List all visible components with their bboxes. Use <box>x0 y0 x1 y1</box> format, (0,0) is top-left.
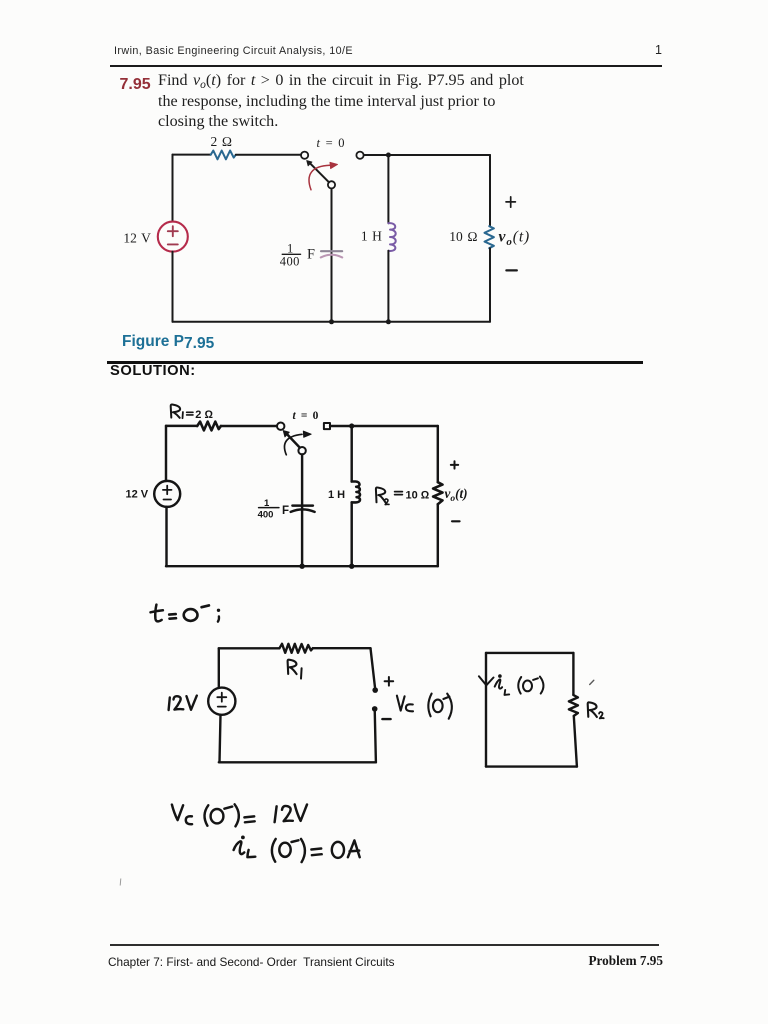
svg-text:1 H: 1 H <box>328 489 345 501</box>
zero <box>433 700 443 713</box>
wire top right <box>364 154 490 156</box>
source circle <box>154 481 180 507</box>
equals <box>311 849 321 856</box>
left wire lower <box>220 715 221 763</box>
superscript minus <box>443 697 449 699</box>
stray pen mark left margin <box>119 879 122 886</box>
subscript 1 <box>182 412 184 418</box>
equals <box>169 614 176 619</box>
left wire upper <box>165 426 167 481</box>
top wire <box>486 652 573 654</box>
node dot inductor bottom <box>349 564 354 569</box>
svg-text:2 Ω: 2 Ω <box>211 134 233 149</box>
zero <box>523 681 532 692</box>
node dot bottom inductor <box>386 319 391 324</box>
wire to switch contact <box>221 425 277 427</box>
footer right <box>589 953 663 969</box>
R2 label script R <box>588 702 597 717</box>
node dot lower <box>372 706 378 712</box>
resistor 2ohm zigzag <box>211 151 236 160</box>
handwritten t = 0- ; heading <box>151 605 221 622</box>
switch pivot circle <box>298 447 305 454</box>
superscript minus <box>292 840 299 842</box>
Vc label: c <box>406 704 413 711</box>
resistor R1 zigzag <box>197 422 221 431</box>
t=0- left circuit <box>169 644 452 763</box>
label R2 script R <box>376 487 386 502</box>
inductor branch wire lower <box>387 251 389 322</box>
V <box>295 804 307 821</box>
resistor R2 zigzag <box>433 482 442 504</box>
source plus <box>168 226 178 236</box>
swing arrow arc <box>284 434 302 455</box>
minus sign output <box>506 269 516 271</box>
solution rule <box>107 361 643 363</box>
paren close <box>540 677 544 694</box>
node dot top of inductor <box>386 153 391 158</box>
bottom wire <box>486 765 577 767</box>
red closing arrow arc <box>309 165 330 190</box>
node dot bottom capacitor <box>329 319 334 324</box>
resistor R1 zigzag <box>279 644 312 653</box>
source circle <box>208 688 235 715</box>
capacitor plate top <box>292 504 313 506</box>
wire to corner <box>313 647 371 649</box>
node dot capacitor bottom <box>299 564 304 569</box>
zero <box>184 609 198 621</box>
handwritten Vc(0-) = 12V <box>172 804 307 826</box>
paren open <box>428 694 431 717</box>
left wire <box>485 653 487 767</box>
L subscript <box>247 850 255 857</box>
V <box>172 805 183 821</box>
i body <box>234 841 245 854</box>
paren close <box>447 694 452 719</box>
iL label dot <box>498 674 502 678</box>
source plus <box>163 486 172 495</box>
svg-text:vo(t): vo(t) <box>445 486 468 504</box>
right wire upper <box>572 653 574 695</box>
superscript minus <box>202 605 209 607</box>
source minus <box>218 706 226 708</box>
zero <box>279 843 290 857</box>
minus Vc <box>382 718 390 720</box>
bottom wire <box>173 321 491 323</box>
equals <box>244 816 254 822</box>
label R1 script R <box>288 660 297 674</box>
right wire upper <box>371 648 376 687</box>
source minus <box>164 499 172 501</box>
footer rule <box>110 944 659 946</box>
i dot <box>241 836 245 840</box>
handwritten 2 <box>174 696 184 709</box>
svg-text:400: 400 <box>280 255 300 269</box>
subscript 2 <box>599 712 604 718</box>
paren open <box>205 805 209 825</box>
svg-text:F: F <box>282 505 289 517</box>
stray tick <box>590 680 594 684</box>
source minus <box>168 243 178 245</box>
handwritten iL(0-) = 0A <box>234 836 360 863</box>
wire top left <box>173 154 211 156</box>
svg-text:vo(t): vo(t) <box>499 229 531 249</box>
inductor coil <box>352 482 360 503</box>
printed circuit Fig P7.95 <box>123 134 530 324</box>
top wire <box>219 647 280 649</box>
switch contact right <box>356 152 363 159</box>
right wire lower <box>437 504 439 566</box>
top wire left <box>166 425 197 427</box>
switch blade <box>310 164 329 183</box>
inductor branch wire upper <box>387 155 389 223</box>
svg-text:10 Ω: 10 Ω <box>449 229 477 244</box>
right wire upper <box>489 155 491 226</box>
left wire upper <box>218 648 220 687</box>
superscript minus <box>533 678 538 680</box>
plus Vc <box>385 677 394 686</box>
wire top to switch <box>236 154 301 156</box>
paren close <box>235 804 239 826</box>
svg-text:t = 0: t = 0 <box>293 410 319 422</box>
header rule <box>110 65 662 67</box>
source V1 circle <box>158 222 188 252</box>
left wire upper <box>172 155 174 222</box>
2 <box>282 806 293 821</box>
contact square <box>324 423 330 429</box>
t crossbar <box>151 610 163 612</box>
t=0- right circuit <box>479 653 604 767</box>
switch contact left <box>301 152 308 159</box>
resistor R2 zigzag <box>569 695 578 716</box>
capacitor branch wire <box>331 189 333 322</box>
inductor branch lower <box>350 502 352 566</box>
superscript minus <box>224 807 232 809</box>
equals <box>395 492 403 495</box>
switch pivot circle <box>328 181 335 188</box>
right wire lower <box>574 716 577 767</box>
switch blade <box>287 434 300 448</box>
svg-text:12 V: 12 V <box>126 489 149 501</box>
top wire right <box>330 425 438 427</box>
footer left <box>108 955 395 969</box>
problem number 7.95 <box>120 76 151 94</box>
switch contact circle <box>277 423 284 430</box>
left wire lower <box>165 507 167 566</box>
iL label i body <box>495 679 502 688</box>
SOLUTION heading <box>110 363 196 379</box>
svg-text:400: 400 <box>258 509 274 520</box>
node dot inductor top <box>349 423 354 428</box>
plus sign output <box>506 197 515 207</box>
paren open <box>518 677 521 694</box>
paren close <box>301 839 305 862</box>
hand-drawn solution circuit <box>126 404 468 568</box>
blade arrowhead <box>283 431 289 437</box>
zero <box>332 842 344 858</box>
1 <box>275 806 277 822</box>
capacitor branch wire <box>301 454 303 566</box>
svg-text:12 V: 12 V <box>123 231 151 246</box>
plus output <box>451 461 458 468</box>
label R1 = 2ohm script R <box>171 404 180 417</box>
inductor 1H coil <box>388 223 395 251</box>
bottom wire <box>219 761 376 763</box>
A <box>348 840 360 857</box>
semicolon tail <box>218 617 219 622</box>
right wire lower <box>489 248 491 322</box>
zero <box>211 809 224 823</box>
red arrowhead <box>330 162 338 168</box>
header text <box>114 45 353 57</box>
bottom wire <box>166 565 438 567</box>
source plus <box>217 693 226 702</box>
c subscript <box>186 816 192 824</box>
Vc label: V <box>397 696 405 711</box>
equals <box>187 412 193 415</box>
subscript 1 <box>300 668 303 678</box>
blade arrowhead <box>307 161 312 166</box>
right wire lower <box>375 709 376 762</box>
svg-text:F: F <box>307 247 315 263</box>
subscript L <box>505 690 510 695</box>
svg-text:t = 0: t = 0 <box>317 136 345 150</box>
subscript 2 <box>385 499 389 505</box>
page number 1 <box>655 43 662 57</box>
t stem <box>155 605 161 622</box>
svg-text:2 Ω: 2 Ω <box>195 409 213 421</box>
node dot upper <box>372 687 378 693</box>
svg-text:1 H: 1 H <box>361 229 382 244</box>
inductor branch upper <box>350 426 352 482</box>
right wire upper <box>437 426 439 482</box>
handwritten V <box>187 696 197 710</box>
resistor 10ohm zigzag <box>485 226 494 248</box>
capacitor C bottom plate <box>321 255 342 258</box>
swing arrowhead <box>303 431 311 437</box>
semicolon dot <box>217 609 220 612</box>
paren open <box>272 839 276 862</box>
left wire lower <box>172 252 174 322</box>
capacitor plate bottom <box>291 509 315 512</box>
svg-text:10 Ω: 10 Ω <box>406 490 430 502</box>
capacitor C top plate <box>321 250 342 252</box>
svg-text:1: 1 <box>287 242 293 256</box>
handwritten 12V: 1 <box>169 698 170 711</box>
minus output <box>452 520 460 522</box>
problem statement <box>158 71 548 131</box>
current arrow head <box>479 676 494 685</box>
figure caption <box>122 333 214 351</box>
